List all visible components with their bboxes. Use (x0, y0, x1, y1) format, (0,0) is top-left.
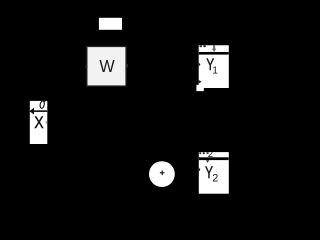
arrowhead into Y1 (upper left) (199, 62, 201, 66)
arrowhead down into Y2 (206, 160, 209, 163)
node X (30, 100, 48, 144)
svg-text:W: W (99, 57, 114, 77)
arrow stub out of W (right border) (126, 64, 128, 68)
arrowhead into Y2 (left) (199, 167, 201, 171)
wire over X (arrow shaft) (30, 110, 48, 112)
node label patch (cropped white image at top) (99, 18, 122, 30)
arrowhead into W (left border) (86, 65, 89, 68)
arrowhead pointing left on X (30, 108, 35, 115)
node W (87, 46, 126, 86)
node Y2 (199, 149, 229, 194)
svg-text:2: 2 (212, 173, 218, 185)
top border of Y1 box (199, 52, 229, 55)
svg-text:1: 1 (212, 66, 218, 77)
node Y1 (196, 45, 228, 91)
arrow down into Y1 (213, 45, 215, 49)
svg-text:X: X (34, 114, 44, 132)
arrowhead fragment at right edge of X (45, 120, 47, 124)
top border of Y2 box (199, 157, 229, 160)
label theta (clipped at image top) (39, 100, 45, 108)
arrowhead into Y1 (lower left) (199, 80, 202, 84)
label epsilon1 (cropped glyph bottoms) (200, 45, 203, 47)
label epsilon2 (cropped glyph bottoms) (199, 152, 201, 154)
sum node + (149, 161, 175, 187)
